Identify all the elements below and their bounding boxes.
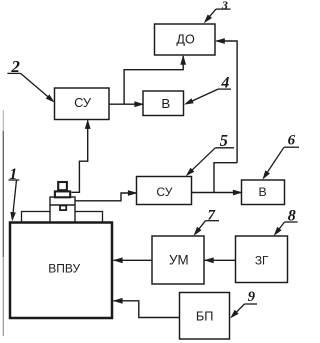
svg-text:8: 8	[288, 207, 296, 224]
svg-text:В: В	[161, 96, 170, 111]
svg-text:9: 9	[248, 289, 255, 305]
svg-text:2: 2	[10, 57, 20, 76]
svg-text:7: 7	[208, 208, 216, 224]
svg-text:СУ: СУ	[156, 185, 172, 199]
svg-text:ДО: ДО	[176, 32, 195, 46]
svg-text:5: 5	[220, 131, 228, 150]
svg-text:УМ: УМ	[169, 252, 189, 267]
svg-text:3: 3	[221, 0, 228, 12]
svg-text:6: 6	[288, 133, 296, 149]
svg-text:1: 1	[9, 166, 17, 183]
svg-text:4: 4	[220, 75, 229, 92]
svg-text:БП: БП	[196, 309, 214, 324]
svg-text:ВПВУ: ВПВУ	[48, 261, 80, 275]
svg-text:ЗГ: ЗГ	[255, 254, 269, 268]
svg-text:В: В	[258, 185, 266, 199]
svg-text:СУ: СУ	[74, 95, 92, 110]
